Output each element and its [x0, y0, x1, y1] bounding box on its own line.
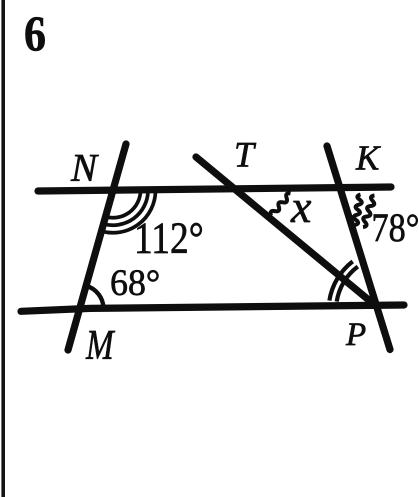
label P [345, 317, 366, 353]
svg-text:78°: 78° [372, 206, 419, 250]
svg-text:N: N [70, 147, 99, 190]
svg-text:68°: 68° [110, 263, 160, 304]
svg-text:K: K [355, 138, 381, 177]
angle x wavy mark at T [271, 193, 291, 215]
svg-text:6: 6 [24, 6, 46, 61]
top parallel line [38, 187, 391, 191]
svg-text:M: M [85, 322, 116, 369]
svg-text:T: T [234, 135, 257, 175]
label 112 degrees [134, 214, 204, 262]
angle 68 arc at M [86, 286, 103, 309]
label N [70, 147, 99, 190]
label M [85, 322, 116, 369]
svg-text:x: x [290, 181, 312, 232]
label x [290, 181, 312, 232]
transversal N-M [68, 144, 126, 350]
bottom parallel line [21, 305, 404, 311]
angle 78 inner wavy mark at K [354, 195, 362, 226]
angle 78 outer wavy mark at K [363, 196, 375, 228]
svg-text:P: P [345, 317, 366, 353]
angle 112 triple arc at N [102, 191, 156, 233]
label 78 degrees [372, 206, 419, 250]
angle double arc at P [329, 261, 357, 301]
svg-text:112°: 112° [134, 214, 204, 262]
left page border [1, 0, 5, 497]
label T [234, 135, 257, 175]
label K [355, 138, 381, 177]
problem number 6 [24, 6, 46, 61]
line T-P [196, 157, 376, 306]
transversal K-P [327, 146, 390, 350]
label 68 degrees [110, 263, 160, 304]
